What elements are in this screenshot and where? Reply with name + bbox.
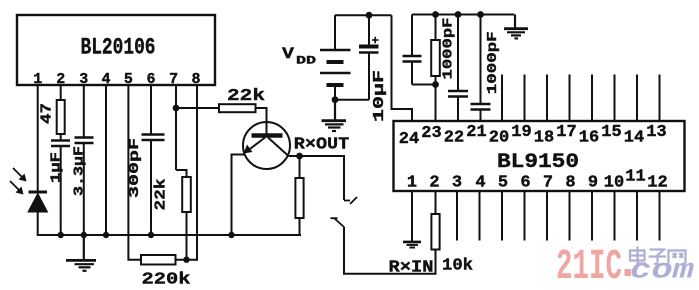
wire U1 pin6 to C3 bbox=[150, 85, 152, 134]
wire battery minus to C4 bbox=[335, 99, 369, 101]
capacitor C2 3.3uF bbox=[75, 138, 94, 144]
svg-text:8: 8 bbox=[565, 174, 575, 193]
U2 bottom pin numbers 1-12 bbox=[407, 168, 668, 193]
resistor R7 (osc) bbox=[431, 15, 440, 85]
svg-text:1μF: 1μF bbox=[49, 152, 65, 183]
svg-text:17: 17 bbox=[556, 123, 576, 142]
IC U1 BL20106 box bbox=[17, 15, 215, 85]
svg-text:3.3μF: 3.3μF bbox=[72, 146, 88, 196]
svg-text:7: 7 bbox=[543, 174, 553, 193]
VDD top wire bbox=[335, 14, 392, 16]
wire R2 to C1 bbox=[60, 134, 62, 140]
wire R1 to Q1 base bbox=[256, 108, 267, 134]
wire pin7 node to R1 bbox=[176, 107, 219, 109]
svg-text:5: 5 bbox=[498, 174, 508, 193]
U2 top pin numbers 24-13 bbox=[399, 123, 667, 149]
svg-text:23: 23 bbox=[421, 124, 441, 143]
wire U1 pin8 down bbox=[196, 85, 198, 261]
capacitor C1 1uF bbox=[51, 141, 70, 147]
wire osc node to U2 pin23 bbox=[435, 85, 437, 122]
svg-text:21IC: 21IC bbox=[556, 242, 622, 290]
svg-text:BL9150: BL9150 bbox=[497, 151, 579, 174]
U1 pin numbers 1-8 bbox=[33, 71, 200, 88]
wire collector node down to R3 bbox=[299, 156, 301, 178]
wire R3 to bus bbox=[299, 218, 301, 236]
R4 value 22k bbox=[153, 179, 170, 211]
wire U1 pin3 to C2 bbox=[83, 85, 85, 137]
svg-text:15: 15 bbox=[601, 123, 621, 142]
C7 value 1000pF bbox=[485, 31, 501, 94]
ground symbol under bus bbox=[66, 235, 96, 271]
svg-text:300pF: 300pF bbox=[127, 138, 143, 198]
wire C3 to bus bbox=[150, 140, 152, 235]
U2 label BL9150 bbox=[497, 151, 579, 174]
junction pin4-bus bbox=[103, 232, 109, 238]
svg-text:2: 2 bbox=[429, 174, 439, 193]
resistor R5 220k bbox=[141, 255, 176, 265]
logo 21IC bbox=[556, 242, 631, 290]
switch S1 fixed contact bbox=[344, 197, 357, 204]
C2 value 3.3uF bbox=[72, 146, 88, 196]
svg-text:21: 21 bbox=[466, 123, 486, 142]
svg-text:47: 47 bbox=[39, 103, 56, 124]
VDD label bbox=[282, 45, 317, 68]
R1 value 22k bbox=[227, 87, 265, 106]
R5 value 220k bbox=[142, 271, 191, 290]
U1 label BL20106 bbox=[81, 35, 156, 61]
wire D1 to ground bus bbox=[37, 212, 39, 235]
ground symbol osc bbox=[504, 15, 528, 39]
wire U1 pin7 down bbox=[175, 85, 177, 170]
svg-text:12: 12 bbox=[647, 174, 667, 193]
junction R5/R4/pin8 bbox=[183, 257, 189, 263]
svg-text:6: 6 bbox=[520, 174, 530, 193]
wire U1 pin4 to bus bbox=[105, 85, 107, 235]
svg-text:14: 14 bbox=[624, 129, 644, 148]
RxOUT label bbox=[294, 136, 350, 155]
junction osc bottom node bbox=[432, 81, 439, 88]
junction osc top C6 bbox=[455, 11, 462, 18]
svg-text:BL20106: BL20106 bbox=[81, 35, 156, 61]
C4 value 10uF bbox=[371, 70, 388, 122]
light arrows into D1 bbox=[10, 168, 27, 195]
switch S1 arm bbox=[331, 218, 344, 226]
junction VDD/C4 bbox=[366, 12, 373, 19]
junction osc top C7 bbox=[477, 11, 484, 18]
svg-text:com: com bbox=[630, 256, 694, 287]
svg-text:22k: 22k bbox=[227, 87, 265, 106]
wire R6 to U2 pin2 bbox=[435, 192, 437, 214]
wire R4 to junction (crosses bus) bbox=[186, 212, 188, 260]
capacitor C6 1000pF bbox=[448, 15, 468, 122]
junction battery minus node bbox=[332, 96, 339, 103]
wire U2 pin1 to ground bbox=[411, 191, 413, 241]
wire C2 to bus bbox=[83, 143, 85, 235]
oscillator top wire bbox=[412, 14, 515, 16]
svg-text:13: 13 bbox=[646, 123, 666, 142]
logo .com script bbox=[630, 256, 694, 287]
resistor R4 22k vertical bbox=[182, 177, 191, 212]
junction pin3-bus bbox=[81, 232, 87, 238]
resistor R3 (load) bbox=[295, 178, 303, 218]
capacitor C5 (osc left) bbox=[403, 15, 436, 85]
RxIN label bbox=[389, 259, 434, 278]
wire U1 pin1 down to photodiode bbox=[37, 85, 39, 191]
R6 value 10k bbox=[442, 257, 473, 276]
svg-text:R×IN: R×IN bbox=[389, 259, 434, 278]
svg-text:1000pF: 1000pF bbox=[441, 18, 457, 80]
svg-text:R×OUT: R×OUT bbox=[294, 136, 350, 155]
svg-text:24: 24 bbox=[399, 130, 419, 149]
svg-text:4: 4 bbox=[475, 174, 485, 193]
svg-text:1: 1 bbox=[407, 174, 417, 193]
svg-text:22: 22 bbox=[444, 129, 464, 148]
svg-text:11: 11 bbox=[625, 168, 645, 187]
wire collector node to switch bbox=[300, 156, 345, 200]
IC U2 BL9150 box bbox=[394, 121, 685, 191]
C3 value 300pF bbox=[127, 138, 143, 198]
ground symbol U2 pin1 bbox=[403, 242, 421, 248]
svg-text:22k: 22k bbox=[153, 179, 170, 211]
U2 unconnected top pin stubs 20-13 bbox=[502, 75, 660, 122]
ground symbol VDD bbox=[322, 100, 347, 131]
capacitor C4 10uF polarized bbox=[359, 15, 379, 100]
svg-text:1000pF: 1000pF bbox=[485, 31, 501, 94]
ground bus wire bbox=[37, 234, 301, 236]
junction pin2-bus bbox=[58, 232, 64, 238]
junction collector node bbox=[296, 153, 303, 160]
wire R5 right to junction and U1 pin8 bbox=[176, 259, 198, 261]
resistor R2 47 bbox=[57, 100, 65, 134]
wire Q1 collector to node bbox=[289, 155, 300, 157]
junction emitter-bus bbox=[228, 232, 234, 238]
junction pin6-bus bbox=[148, 232, 154, 238]
wire pin7 jog to R4 bbox=[176, 170, 187, 177]
svg-text:220k: 220k bbox=[142, 271, 191, 290]
junction osc top R7 bbox=[432, 11, 439, 18]
transistor Q1 bbox=[243, 122, 290, 169]
svg-text:3: 3 bbox=[452, 174, 462, 193]
photodiode D1 bbox=[28, 192, 48, 212]
svg-text:10: 10 bbox=[604, 174, 624, 193]
C1 value 1uF bbox=[49, 152, 65, 183]
wire U1 pin2 to R2 bbox=[60, 85, 62, 100]
svg-text:10k: 10k bbox=[442, 257, 473, 276]
svg-text:DD: DD bbox=[296, 56, 317, 68]
U2 unconnected bottom pin stubs 3-12 bbox=[457, 191, 660, 241]
R2 value 47 bbox=[39, 103, 56, 124]
resistor R6 10k bbox=[431, 214, 439, 250]
wire VDD to U2 pin24 bbox=[392, 15, 413, 121]
resistor R1 22k horizontal bbox=[219, 104, 256, 112]
svg-text:9: 9 bbox=[588, 174, 598, 193]
logo 电子网 glyphs bbox=[630, 247, 686, 264]
svg-text:19: 19 bbox=[511, 123, 531, 142]
junction pin7 node bbox=[173, 105, 180, 112]
svg-text:18: 18 bbox=[534, 129, 554, 148]
wire U1 pin5 down to R5 220k (crosses bus) bbox=[128, 85, 141, 260]
svg-text:16: 16 bbox=[579, 129, 599, 148]
svg-text:10μF: 10μF bbox=[371, 70, 388, 122]
C6 value 1000pF bbox=[441, 18, 457, 80]
capacitor C3 300pF bbox=[142, 135, 165, 141]
wire C1 to bus bbox=[60, 146, 62, 235]
svg-text:20: 20 bbox=[489, 129, 509, 148]
svg-text:V: V bbox=[282, 45, 294, 63]
capacitor C7 1000pF bbox=[471, 15, 491, 122]
wire switch to RxIN line bbox=[344, 227, 436, 274]
wire Q1 emitter to bus bbox=[232, 155, 245, 236]
battery B1 VDD bbox=[320, 15, 351, 100]
